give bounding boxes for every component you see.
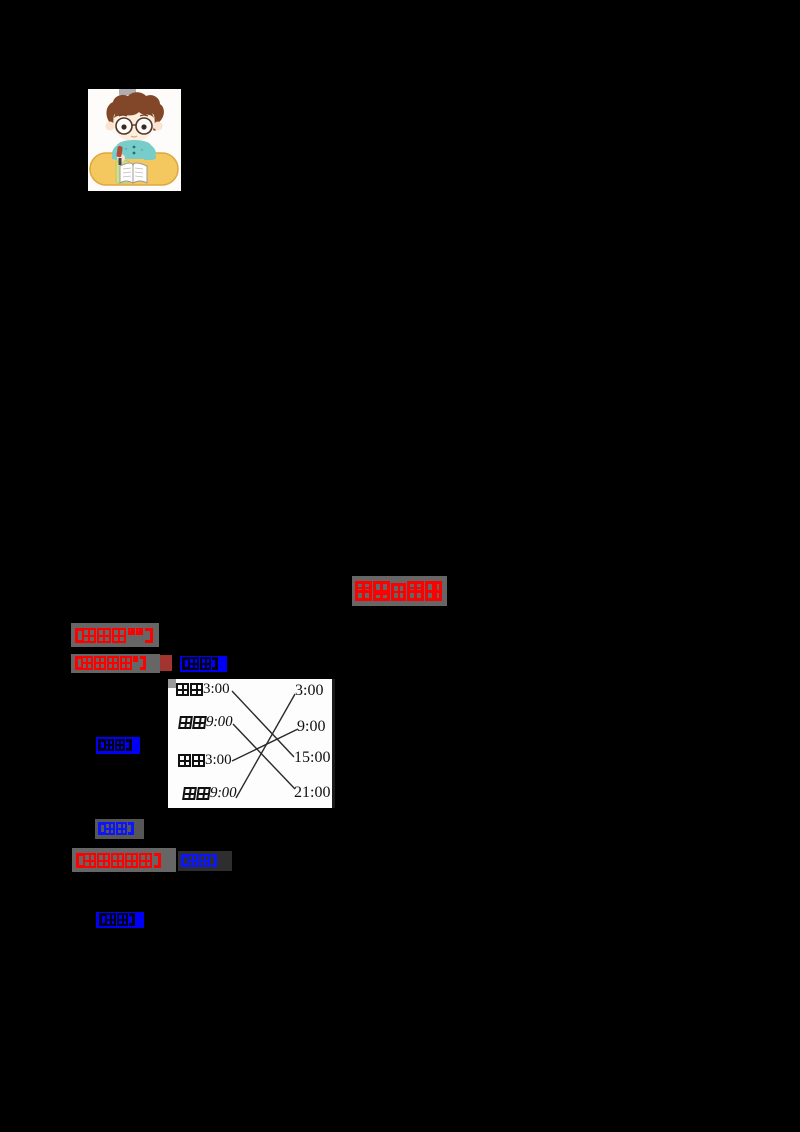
matching diagram box bbox=[168, 679, 335, 808]
shirt bbox=[112, 140, 156, 159]
grey box with red label (line 3) bbox=[72, 848, 176, 872]
line 2: red label on grey + dark red block + blue 【解答】 box bbox=[71, 654, 160, 673]
notebook on desk bbox=[116, 161, 129, 183]
grey corner mark bbox=[168, 679, 176, 688]
right labels bbox=[295, 682, 323, 700]
grey bookmark strip top bbox=[119, 89, 136, 95]
blue 【解答】 box (solution 1) bbox=[96, 737, 140, 754]
centered red title on grey highlight bbox=[352, 576, 447, 606]
right border rule bbox=[332, 679, 335, 808]
ears bbox=[106, 122, 115, 131]
arms bbox=[112, 146, 124, 160]
connecting lines bbox=[168, 679, 335, 808]
desk oval bbox=[90, 153, 178, 185]
fringe bbox=[114, 105, 154, 118]
left label row4 上午9:00 (italic) bbox=[182, 787, 237, 800]
left label row2 晚上9:00 (italic) bbox=[178, 716, 233, 729]
hand + pencil bbox=[117, 154, 125, 162]
face bbox=[113, 110, 154, 141]
glasses bbox=[116, 118, 132, 134]
boy hair fluffy bbox=[106, 92, 163, 130]
left label row3 凌晨3:00 bbox=[178, 754, 232, 767]
blue 【解答】 box (solution 3) bbox=[96, 912, 144, 928]
cartoon picture: boy reading at desk bbox=[88, 89, 181, 191]
grey box with blue 【点评】 text bbox=[95, 819, 144, 839]
brows bbox=[119, 115, 127, 116]
dark box with blue 【解答】 text bbox=[178, 851, 232, 871]
mouth bbox=[131, 136, 137, 137]
open book bbox=[120, 163, 133, 183]
line 1: red 知识点 label on grey bbox=[71, 623, 159, 647]
left label row1 下午3:00 bbox=[176, 683, 230, 696]
